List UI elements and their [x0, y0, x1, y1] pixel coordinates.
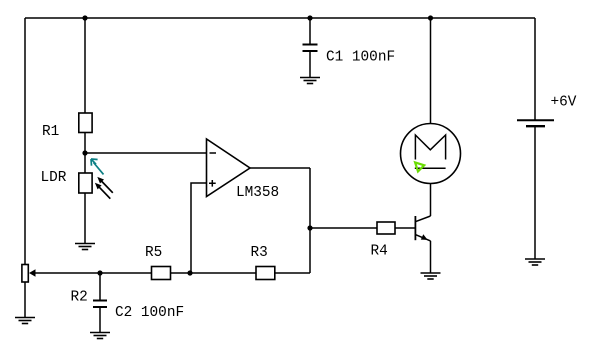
ground below C1 [300, 78, 320, 84]
wire battery to ground [534, 126, 536, 259]
junction dot top rail / motor [428, 15, 433, 20]
ground below battery [525, 259, 545, 265]
svg-text:R5: R5 [145, 245, 162, 261]
op-amp U1 LM358 [207, 139, 251, 197]
ground below transistor [421, 273, 441, 279]
wire inverting input (node A to op-amp) [85, 152, 207, 154]
wire pot to ground [24, 282, 26, 318]
transistor Q1 collector lead [415, 216, 430, 222]
ground below potentiometer [15, 318, 35, 324]
motor M1 body [401, 124, 461, 184]
motor M glyph [415, 135, 445, 160]
teal annotation arrow pointing at R1/LDR node [91, 159, 104, 174]
battery long plate [517, 119, 554, 121]
resistor R1 [79, 113, 92, 133]
motor underline [415, 167, 446, 169]
resistor R4 [377, 222, 395, 234]
wire motor to transistor collector [430, 184, 432, 217]
junction dot top rail / C1 [307, 15, 312, 20]
wire non-inverting input down to bottom net [191, 183, 207, 273]
svg-text:LDR: LDR [41, 170, 67, 186]
minus symbol pin 2 [210, 152, 217, 154]
wire LDR to ground [84, 193, 86, 244]
potentiometer R2 wiper arrow [29, 269, 36, 277]
battery short plate [526, 125, 545, 127]
capacitor C1 [309, 18, 311, 45]
wire op-amp output [250, 167, 310, 169]
light arrow 2 into LDR [95, 183, 110, 199]
wire R1 to LDR [84, 133, 86, 174]
junction dot bottom net / non-inverting input [187, 270, 192, 275]
battery B1 positive lead [534, 18, 536, 120]
wire base node to R4 [310, 227, 377, 229]
wire motor branch from top rail [430, 18, 432, 124]
wire bottom net from potentiometer wiper [35, 272, 152, 274]
wire R3 to output vertical [275, 272, 310, 274]
wire top rail [25, 17, 535, 19]
light arrow 1 into LDR [97, 177, 113, 193]
plus symbol pin 3 [209, 180, 216, 187]
wire left rail [24, 18, 26, 265]
resistor R3 [256, 267, 275, 280]
wire R1 branch from top rail [84, 18, 86, 113]
photoresistor LDR [79, 173, 92, 193]
capacitor C2 [99, 273, 101, 301]
svg-text:R2: R2 [71, 290, 88, 306]
wire output vertical to feedback/base node [309, 168, 311, 273]
junction dot top rail / R1 [82, 15, 87, 20]
svg-text:+6V: +6V [551, 95, 577, 111]
wire R4 to transistor base [395, 227, 415, 229]
transistor Q1 emitter arrow [421, 234, 428, 240]
ground below LDR [75, 244, 95, 250]
transistor Q1 base bar [414, 216, 416, 240]
potentiometer R2 body [22, 265, 28, 283]
junction dot bottom net / C2 [97, 270, 102, 275]
svg-text:LM358: LM358 [236, 185, 279, 201]
svg-text:R4: R4 [371, 244, 388, 260]
junction dot node A (R1/LDR/inverting input) [82, 150, 87, 155]
resistor R5 [152, 267, 171, 280]
wire emitter to ground [430, 241, 432, 273]
green annotation triangle on motor [415, 162, 424, 171]
ground below C2 [90, 333, 110, 339]
wire R5 to R3 [171, 272, 257, 274]
transistor Q1 emitter lead [415, 235, 430, 241]
svg-text:R1: R1 [42, 124, 59, 140]
svg-text:C1 100nF: C1 100nF [326, 50, 395, 66]
svg-text:R3: R3 [251, 245, 268, 261]
junction dot output / R4 / R3 [307, 225, 312, 230]
svg-text:C2 100nF: C2 100nF [115, 305, 184, 321]
